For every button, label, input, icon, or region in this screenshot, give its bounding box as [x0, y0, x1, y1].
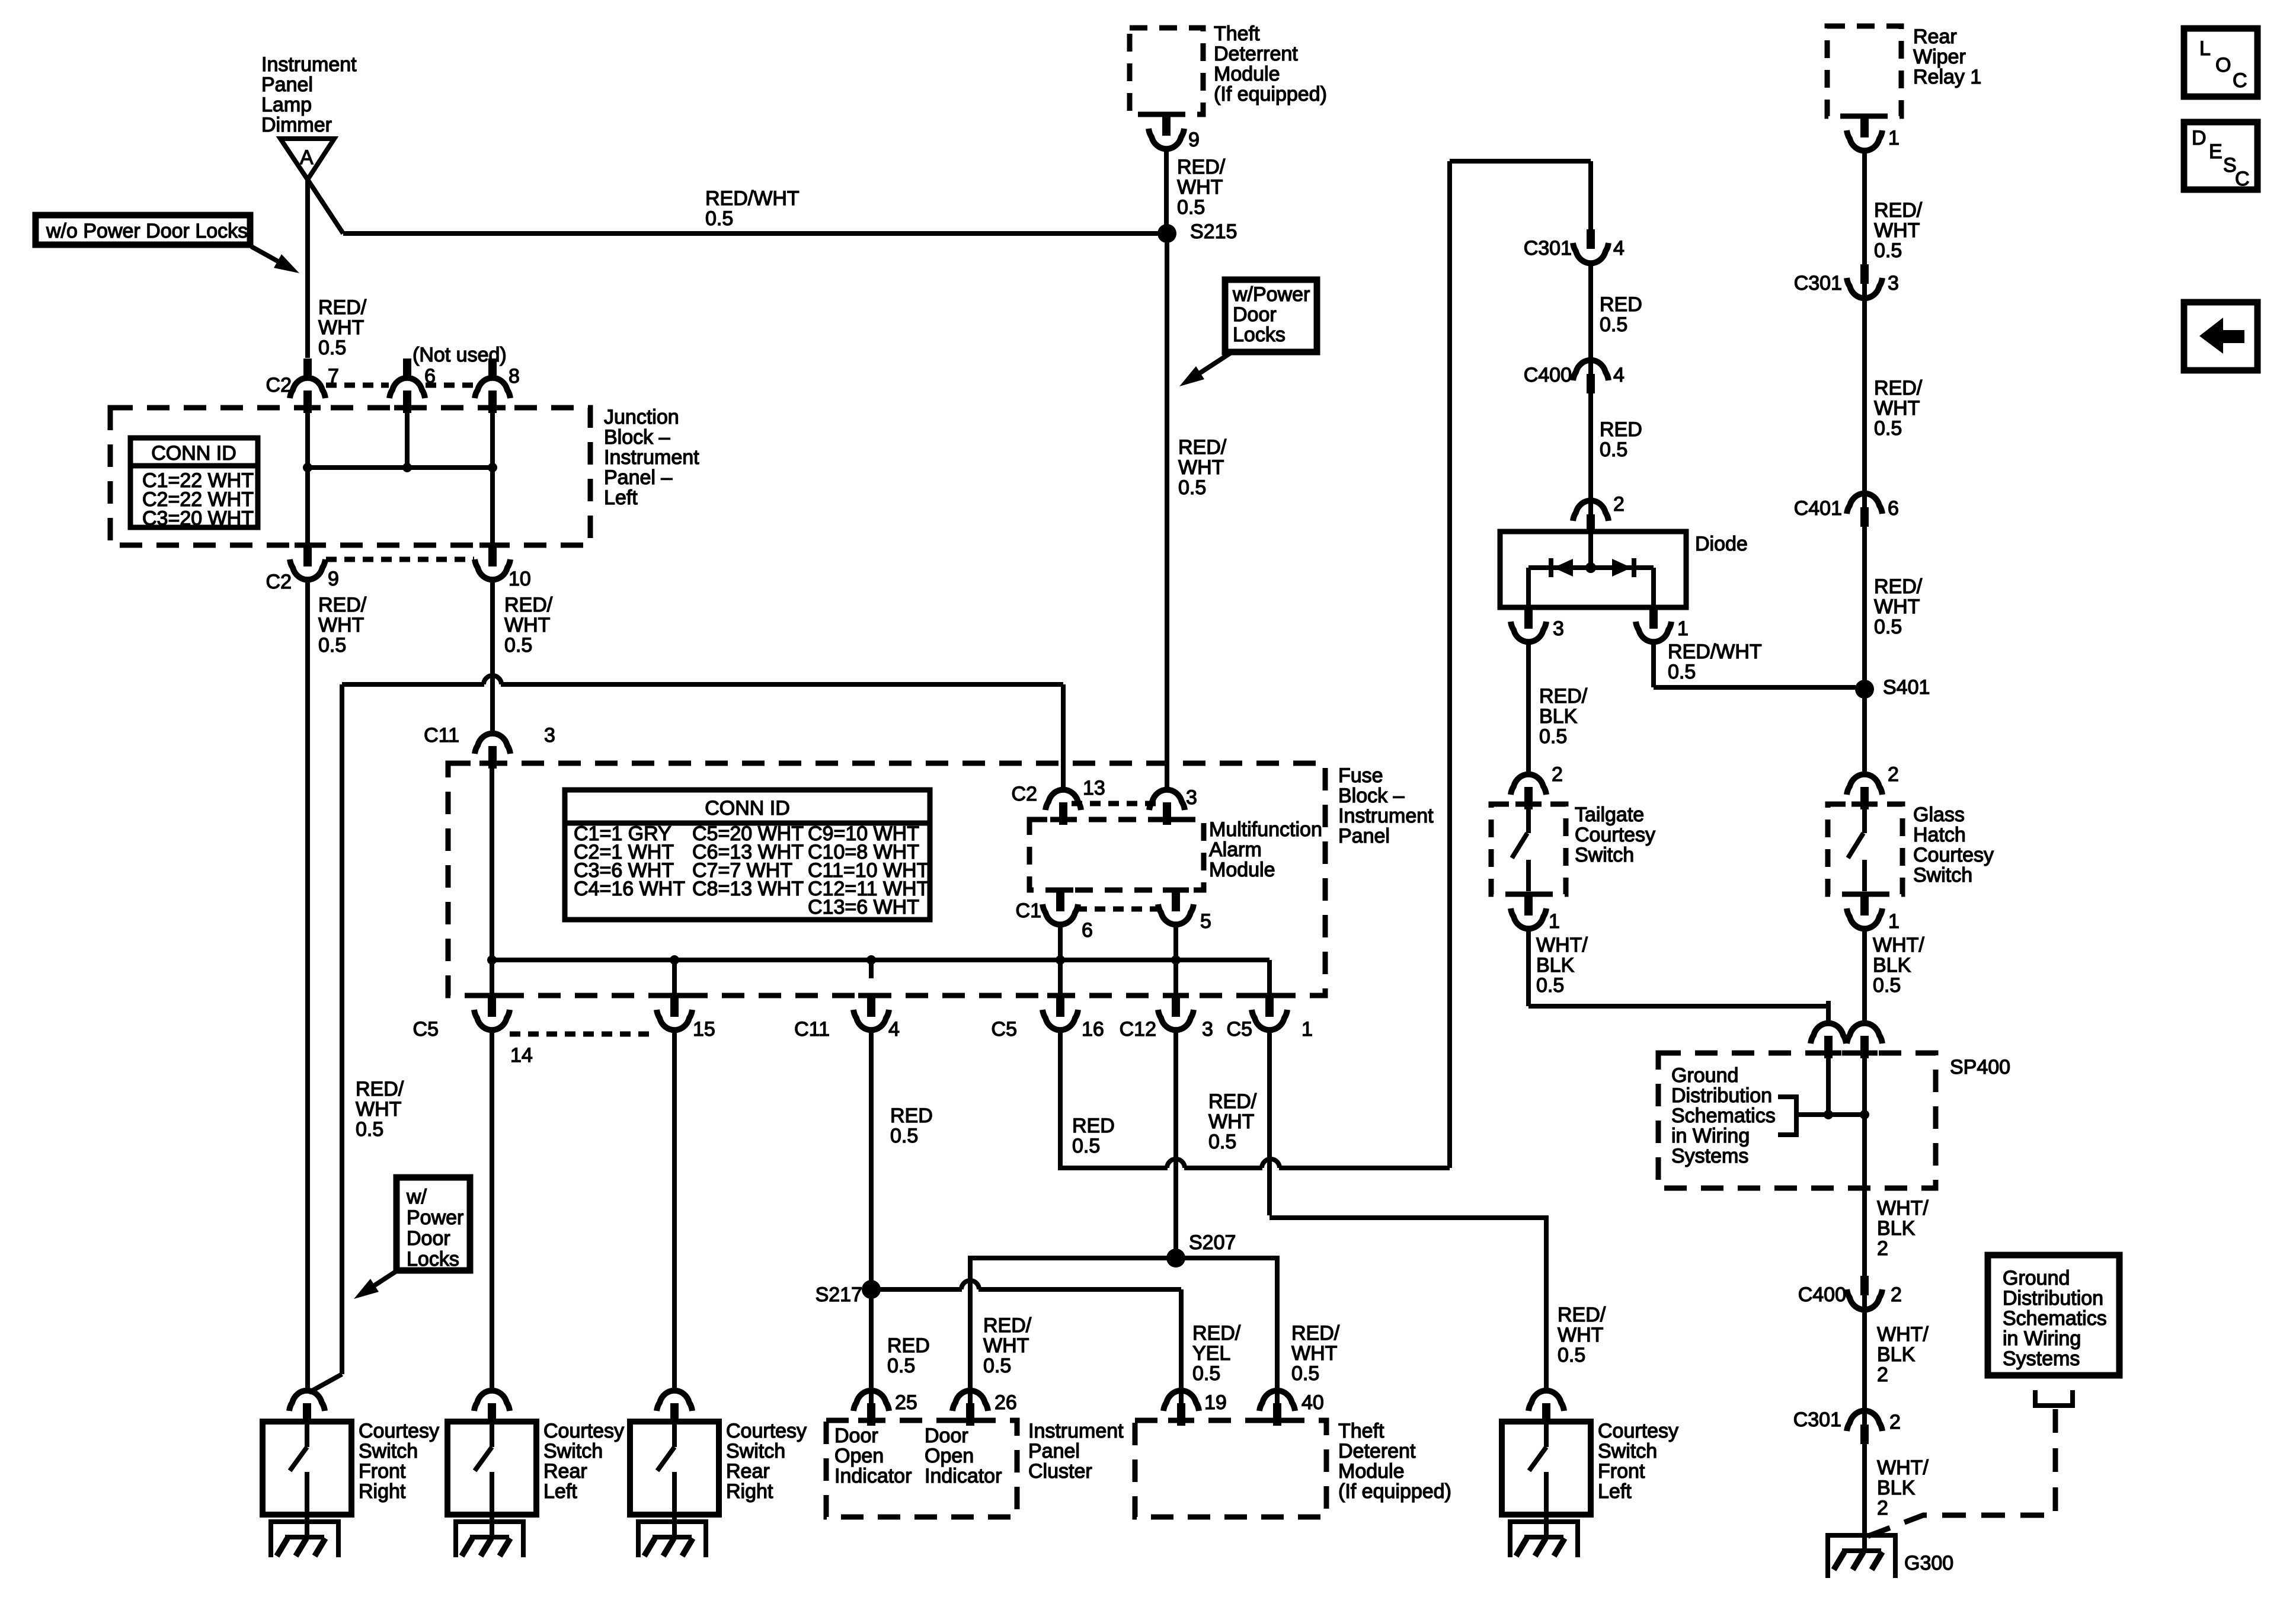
wire - branch line to front right switch (w/power door locks)	[340, 684, 344, 1374]
svg-text:Hatch: Hatch	[1913, 824, 1966, 846]
svg-text:SP400: SP400	[1950, 1056, 2010, 1078]
SP400 splice box (dashed)	[1658, 1053, 1936, 1188]
svg-text:Right: Right	[359, 1480, 406, 1503]
ground - Switch Front Left	[1544, 1515, 1549, 1538]
svg-text:0.5: 0.5	[1177, 196, 1205, 219]
w/Power Door Locks arrow (top)	[1197, 351, 1234, 375]
connector pin 8	[488, 359, 497, 377]
DESC legend box	[2184, 122, 2257, 190]
svg-text:Panel: Panel	[1028, 1440, 1080, 1462]
svg-text:C4=16 WHT: C4=16 WHT	[574, 878, 685, 900]
svg-text:15: 15	[693, 1018, 715, 1041]
svg-text:2: 2	[1889, 1411, 1901, 1433]
connector pin 19	[1179, 1368, 1184, 1392]
svg-text:Instrument: Instrument	[261, 53, 357, 76]
svg-text:S401: S401	[1883, 676, 1930, 699]
connector pin 15	[661, 993, 687, 998]
connector C2 pin 13	[1061, 767, 1066, 791]
tie line C2pin13 - pin3	[1072, 801, 1158, 806]
svg-text:Block –: Block –	[604, 426, 670, 449]
svg-text:Cluster: Cluster	[1028, 1460, 1092, 1483]
svg-text:Open: Open	[925, 1445, 974, 1467]
svg-text:Right: Right	[726, 1480, 773, 1503]
svg-text:YEL: YEL	[1192, 1342, 1230, 1365]
svg-text:RED/: RED/	[983, 1314, 1032, 1337]
svg-text:Theft: Theft	[1214, 23, 1260, 45]
svg-text:C12: C12	[1120, 1018, 1156, 1041]
tie line C5pin14 - pin15	[510, 1032, 657, 1037]
svg-text:Module: Module	[1209, 859, 1275, 881]
wire - dimmer diagonal to S215 feed	[308, 180, 343, 233]
svg-text:WHT: WHT	[1208, 1110, 1254, 1133]
connector C301 pin 2	[1847, 1411, 1882, 1431]
svg-text:0.5: 0.5	[705, 207, 733, 230]
wire - pin 15 riser	[672, 960, 677, 996]
svg-text:Switch: Switch	[1913, 864, 1972, 886]
connector pin 25	[869, 1368, 874, 1392]
svg-text:Courtesy: Courtesy	[726, 1420, 807, 1442]
svg-text:in Wiring: in Wiring	[2003, 1327, 2081, 1350]
svg-text:Deterrent: Deterrent	[1214, 43, 1298, 65]
svg-text:2: 2	[1877, 1363, 1888, 1386]
svg-text:Power: Power	[407, 1206, 463, 1229]
svg-text:C: C	[2233, 69, 2247, 92]
svg-text:Locks: Locks	[1233, 324, 1285, 346]
svg-text:RED/: RED/	[356, 1078, 404, 1100]
svg-text:25: 25	[895, 1391, 917, 1414]
svg-text:19: 19	[1204, 1391, 1227, 1414]
courtesy switch box - Switch Front Left	[1502, 1422, 1591, 1515]
connector pin 3 (multifunction top)	[1165, 767, 1169, 791]
svg-text:(If equipped): (If equipped)	[1214, 83, 1327, 105]
svg-text:3: 3	[1888, 272, 1899, 295]
svg-text:2: 2	[1877, 1237, 1888, 1260]
svg-text:WHT: WHT	[1291, 1342, 1337, 1365]
svg-text:Multifunction: Multifunction	[1209, 818, 1322, 841]
svg-text:WHT: WHT	[504, 614, 550, 636]
svg-text:C401: C401	[1794, 497, 1842, 520]
connector C12 pin 3	[1163, 993, 1189, 998]
instrument panel lamp dimmer triangle A	[280, 139, 334, 180]
junction block - instrument panel - left (dashed box)	[110, 408, 590, 545]
fuse block - instrument panel (dashed box)	[448, 763, 1325, 996]
svg-text:C400: C400	[1798, 1283, 1846, 1306]
connector pin 6 (not used)	[403, 359, 411, 377]
S217 splice	[862, 1280, 881, 1299]
svg-text:WHT: WHT	[318, 614, 364, 636]
LOC legend box	[2184, 28, 2257, 97]
connector pin 2 (glass hatch)	[1862, 752, 1867, 776]
svg-text:Rear: Rear	[1913, 25, 1957, 48]
S207 splice	[1166, 1249, 1185, 1267]
connector pin 1 (diode right)	[1649, 606, 1658, 629]
wire - C5 pin16 to bus1	[1060, 1030, 1168, 1168]
svg-text:C3=20 WHT: C3=20 WHT	[142, 507, 254, 530]
wire - top link down to C301 pin4	[1588, 161, 1593, 231]
svg-text:1: 1	[1888, 910, 1900, 933]
connector C5 pin 14	[479, 993, 505, 998]
connector pin 9 (theft deterrent module)	[1153, 112, 1179, 117]
svg-text:Locks: Locks	[407, 1248, 459, 1270]
svg-text:Tailgate: Tailgate	[1575, 804, 1644, 826]
svg-text:Relay 1: Relay 1	[1913, 66, 1981, 88]
wire - S215 down to multifunction pin 3	[1165, 233, 1169, 770]
fuse block internal bus y1620	[492, 958, 1269, 962]
svg-text:Module: Module	[1338, 1460, 1405, 1483]
svg-text:Courtesy: Courtesy	[1575, 824, 1655, 846]
connector pin 10	[479, 543, 506, 548]
connector C11 pin 4	[858, 993, 884, 998]
svg-text:BLK: BLK	[1877, 1343, 1916, 1366]
wire - x2684 down to diode	[1588, 261, 1593, 532]
connector C301 pin 3	[1860, 264, 1869, 284]
wire - y1155 link down to C2 pin13	[1061, 684, 1066, 770]
svg-text:S215: S215	[1190, 220, 1237, 243]
svg-text:4: 4	[888, 1018, 900, 1041]
svg-text:0.5: 0.5	[1874, 616, 1902, 638]
courtesy switch box - Switch Front Right	[263, 1422, 351, 1515]
courtesy switch Rear Right connector	[657, 1391, 692, 1411]
svg-text:w/Power: w/Power	[1232, 283, 1310, 306]
svg-text:Systems: Systems	[1671, 1145, 1748, 1167]
rear wiper relay 1 (dashed box)	[1827, 26, 1901, 116]
wire - pin10 to C11 pin3	[490, 580, 495, 714]
svg-text:2: 2	[1888, 763, 1899, 786]
svg-text:0.5: 0.5	[1668, 661, 1696, 683]
svg-text:Instrument: Instrument	[1028, 1420, 1124, 1442]
svg-text:14: 14	[510, 1044, 533, 1067]
svg-text:Rear: Rear	[726, 1460, 770, 1483]
svg-text:Courtesy: Courtesy	[543, 1420, 624, 1442]
svg-text:Door: Door	[834, 1425, 878, 1447]
svg-text:Panel: Panel	[1338, 825, 1390, 847]
svg-text:BLK: BLK	[1536, 954, 1575, 977]
svg-text:in Wiring: in Wiring	[1671, 1125, 1750, 1147]
svg-text:Switch: Switch	[726, 1440, 785, 1462]
svg-text:0.5: 0.5	[1874, 239, 1902, 262]
svg-text:RED/: RED/	[318, 296, 367, 319]
svg-text:1: 1	[1677, 617, 1689, 640]
svg-text:w/o Power Door Locks: w/o Power Door Locks	[46, 220, 248, 242]
svg-text:2: 2	[1552, 763, 1563, 786]
multifunction alarm module (dashed box)	[1029, 820, 1204, 890]
wire - pin 9 down to courtesy switch front right	[305, 580, 310, 1393]
connector C11 pin 3 (fuse block top)	[490, 711, 495, 735]
svg-text:0.5: 0.5	[983, 1355, 1011, 1377]
svg-text:1: 1	[1302, 1018, 1313, 1041]
ground - Switch Front Right	[305, 1515, 309, 1538]
svg-text:WHT: WHT	[1874, 219, 1920, 242]
svg-text:C301: C301	[1793, 1409, 1841, 1431]
back arrow box	[2184, 302, 2257, 370]
svg-text:3: 3	[544, 724, 555, 747]
theft deterrent module top (dashed box)	[1130, 28, 1203, 114]
svg-text:BLK: BLK	[1877, 1217, 1916, 1240]
wire - SP400 down to G300	[1862, 1188, 1867, 1552]
svg-text:WHT: WHT	[1874, 397, 1920, 420]
svg-text:0.5: 0.5	[1539, 725, 1567, 748]
svg-text:4: 4	[1613, 237, 1625, 260]
connector C301 pin 4	[1587, 229, 1595, 249]
svg-text:C1: C1	[1016, 900, 1041, 922]
w/Power Door Locks callout box (top)	[1225, 280, 1317, 352]
svg-text:3: 3	[1553, 617, 1564, 640]
svg-text:0.5: 0.5	[1558, 1344, 1585, 1366]
svg-text:Module: Module	[1214, 63, 1280, 85]
svg-text:2: 2	[1891, 1283, 1902, 1306]
svg-text:Switch: Switch	[1598, 1440, 1657, 1462]
w/ Power Door Locks arrow (lower)	[372, 1271, 396, 1287]
svg-text:13: 13	[1083, 777, 1105, 799]
svg-text:0.5: 0.5	[356, 1118, 383, 1141]
w/ Power Door Locks callout box (lower)	[396, 1177, 470, 1270]
connector pin 1 (rear wiper relay)	[1851, 114, 1878, 119]
svg-text:3: 3	[1202, 1018, 1213, 1041]
svg-text:WHT/: WHT/	[1877, 1457, 1929, 1479]
svg-text:BLK: BLK	[1873, 954, 1911, 977]
svg-text:C301: C301	[1524, 237, 1572, 260]
connector C2 pin 7	[303, 359, 312, 377]
wire - relay pin1 down	[1862, 151, 1867, 769]
wire - diode pin3 down to tailgate switch	[1526, 642, 1531, 770]
svg-text:WHT: WHT	[318, 316, 364, 339]
svg-text:Front: Front	[1598, 1460, 1645, 1483]
svg-text:Door: Door	[1233, 303, 1277, 326]
courtesy switch Front Left connector	[1528, 1391, 1564, 1411]
svg-text:0.5: 0.5	[504, 634, 532, 657]
svg-text:S207: S207	[1189, 1231, 1236, 1254]
connector into SP400 (left)	[1826, 1001, 1831, 1025]
wire - C1 pin6 down to bus	[1058, 924, 1063, 996]
svg-text:S217: S217	[816, 1283, 862, 1306]
svg-text:WHT: WHT	[1558, 1324, 1603, 1346]
svg-text:5: 5	[1200, 910, 1211, 933]
svg-text:1: 1	[1549, 910, 1560, 933]
svg-text:Schematics: Schematics	[1671, 1105, 1776, 1127]
connector C5 pin 1	[1256, 993, 1283, 998]
svg-text:w/: w/	[406, 1186, 427, 1208]
svg-text:C5: C5	[992, 1018, 1017, 1041]
S401 splice	[1855, 680, 1874, 699]
svg-text:Theft: Theft	[1338, 1420, 1384, 1442]
svg-text:Rear: Rear	[543, 1460, 587, 1483]
CONN ID table (fuse block)	[565, 790, 930, 920]
svg-text:4: 4	[1613, 364, 1625, 386]
svg-text:9: 9	[1188, 129, 1200, 151]
w/o Power Door Locks arrow	[251, 247, 281, 263]
wire - C11 pin4 to S217 and pin 25	[869, 1030, 874, 1407]
svg-text:O: O	[2215, 54, 2231, 76]
connector pin 2 (diode)	[1573, 501, 1609, 521]
svg-text:8: 8	[509, 365, 520, 388]
connector C5 pin 16	[1047, 993, 1073, 998]
svg-text:RED/WHT: RED/WHT	[705, 187, 800, 210]
svg-text:0.5: 0.5	[318, 337, 346, 359]
diode internals	[1588, 532, 1593, 568]
wire - pin15 to rear right switch	[672, 1030, 677, 1393]
svg-text:RED/: RED/	[1208, 1090, 1257, 1113]
svg-text:Ground: Ground	[1671, 1064, 1738, 1087]
wire - C5 pin14 to rear left switch	[490, 1030, 494, 1393]
svg-text:D: D	[2192, 127, 2207, 149]
svg-text:RED/: RED/	[1177, 156, 1226, 178]
svg-text:Instrument: Instrument	[1338, 805, 1434, 827]
svg-text:0.5: 0.5	[1873, 974, 1901, 997]
connector pin 5 (multifunction bottom)	[1163, 888, 1189, 893]
svg-text:0.5: 0.5	[1208, 1131, 1236, 1153]
svg-text:RED/: RED/	[1192, 1322, 1241, 1345]
svg-text:CONN ID: CONN ID	[705, 797, 790, 820]
wire - top link to diode column	[1450, 159, 1591, 164]
wire - horizontal link y1155	[342, 682, 484, 687]
wire - tailgate pin1 to SP400	[1526, 929, 1531, 1006]
connector pin 1 (tailgate)	[1515, 892, 1542, 897]
svg-text:Junction: Junction	[604, 406, 679, 428]
svg-text:1: 1	[1888, 127, 1900, 149]
svg-text:BLK: BLK	[1877, 1477, 1916, 1499]
dashed reference line to G300	[1867, 1409, 2055, 1537]
svg-text:WHT/: WHT/	[1877, 1323, 1929, 1346]
wire - pin5 down to bus and to C12 pin3	[1173, 924, 1178, 996]
svg-text:G300: G300	[1904, 1552, 1953, 1574]
svg-text:Block –: Block –	[1338, 785, 1405, 807]
svg-text:Switch: Switch	[543, 1440, 603, 1462]
connector into SP400 (right)	[1862, 1001, 1867, 1025]
svg-text:Systems: Systems	[2003, 1347, 2080, 1370]
svg-text:Front: Front	[359, 1460, 406, 1483]
svg-text:26: 26	[994, 1391, 1017, 1414]
svg-text:Courtesy: Courtesy	[1598, 1420, 1678, 1442]
svg-text:L: L	[2199, 37, 2211, 60]
connector pin 26	[968, 1368, 973, 1392]
CONN ID table (junction block)	[130, 438, 258, 527]
svg-text:WHT: WHT	[1874, 596, 1920, 618]
svg-text:Open: Open	[834, 1445, 884, 1467]
svg-text:0.5: 0.5	[318, 634, 346, 657]
svg-text:RED/: RED/	[1874, 199, 1923, 222]
svg-text:0.5: 0.5	[1291, 1362, 1319, 1385]
svg-text:C13=6 WHT: C13=6 WHT	[808, 896, 919, 918]
svg-text:RED/: RED/	[1291, 1322, 1340, 1345]
courtesy switch Rear Left connector	[474, 1391, 510, 1411]
svg-text:WHT: WHT	[1178, 456, 1224, 479]
connector C400 pin 2	[1860, 1276, 1869, 1295]
svg-text:C2: C2	[266, 571, 292, 593]
svg-text:WHT/: WHT/	[1877, 1197, 1929, 1219]
svg-text:Distribution: Distribution	[2003, 1287, 2103, 1310]
connector pin 40	[1275, 1368, 1280, 1392]
svg-text:Indicator: Indicator	[834, 1465, 912, 1487]
svg-text:0.5: 0.5	[887, 1355, 915, 1377]
tie line C2 pins 7-6-8	[326, 383, 389, 388]
svg-text:0.5: 0.5	[1600, 438, 1627, 461]
svg-text:C: C	[2235, 168, 2250, 190]
svg-text:16: 16	[1082, 1018, 1104, 1041]
svg-text:WHT/: WHT/	[1536, 934, 1588, 956]
wire - glass pin1 down to SP400	[1862, 929, 1867, 1004]
connector C401 pin 6	[1847, 494, 1882, 514]
courtesy switch box - Switch Rear Left	[447, 1422, 536, 1515]
svg-text:C8=13 WHT: C8=13 WHT	[692, 878, 804, 900]
svg-text:Instrument: Instrument	[604, 446, 699, 469]
SP400 internal wires	[1826, 1058, 1831, 1115]
S215 splice	[1157, 224, 1176, 243]
bracket under box	[2035, 1390, 2073, 1406]
svg-text:C5: C5	[1227, 1018, 1252, 1041]
svg-text:RED: RED	[887, 1334, 930, 1357]
tie line C1pin6 - pin5	[1076, 907, 1160, 912]
svg-text:RED: RED	[1072, 1115, 1115, 1137]
svg-text:9: 9	[328, 568, 339, 590]
svg-text:C11: C11	[794, 1018, 830, 1041]
svg-text:RED/: RED/	[1178, 436, 1227, 459]
wire - C5/14 riser	[490, 769, 494, 996]
svg-text:2: 2	[1877, 1497, 1888, 1519]
svg-text:Door: Door	[407, 1227, 450, 1250]
svg-text:0.5: 0.5	[1192, 1362, 1220, 1385]
svg-text:RED/WHT: RED/WHT	[1668, 641, 1762, 663]
theft deterrent module bottom (dashed box)	[1135, 1420, 1326, 1517]
svg-text:Diode: Diode	[1695, 533, 1748, 555]
svg-text:Fuse: Fuse	[1338, 764, 1383, 787]
wire - tall riser x2446 up	[1447, 161, 1452, 1168]
connector C1 pin 6 (multifunction bottom)	[1047, 888, 1073, 893]
wire - theft module pin9 to S215	[1164, 149, 1169, 233]
svg-text:10: 10	[509, 568, 531, 590]
svg-text:2: 2	[1613, 493, 1625, 516]
courtesy switch Front Right connector	[289, 1391, 325, 1411]
svg-text:WHT: WHT	[356, 1098, 401, 1121]
svg-text:Alarm: Alarm	[1209, 838, 1262, 861]
connector C2 pin 9	[295, 543, 321, 548]
wire - S217 branch to pin 19	[871, 1287, 962, 1292]
svg-text:Switch: Switch	[1575, 844, 1634, 866]
wire - C12 pin3 down to S207	[1173, 1030, 1178, 1258]
svg-text:RED/: RED/	[318, 594, 367, 616]
svg-text:Schematics: Schematics	[2003, 1307, 2107, 1330]
svg-text:WHT: WHT	[1177, 176, 1223, 199]
svg-text:C301: C301	[1794, 272, 1842, 295]
glass hatch courtesy switch (dashed box)	[1828, 804, 1902, 894]
junction block internal wires	[305, 413, 310, 546]
ground - Switch Rear Left	[490, 1515, 494, 1538]
door open indicator box (instrument panel cluster)	[826, 1420, 1017, 1517]
diode box	[1500, 532, 1686, 607]
connector pin 3 (diode left)	[1524, 606, 1533, 629]
wire - C5 pin1 to front left switch	[1267, 1030, 1272, 1215]
svg-text:E: E	[2209, 140, 2223, 163]
svg-text:0.5: 0.5	[1178, 476, 1206, 499]
svg-text:WHT/: WHT/	[1873, 934, 1924, 956]
wire - dimmer to C2 pin 7	[305, 180, 310, 358]
svg-text:0.5: 0.5	[1536, 974, 1564, 997]
wire - S207 branch to pin 26	[970, 1258, 1176, 1407]
svg-text:C2: C2	[1012, 783, 1037, 805]
svg-text:RED/: RED/	[504, 594, 553, 616]
svg-text:Left: Left	[1598, 1480, 1632, 1503]
svg-text:C400: C400	[1524, 364, 1572, 386]
svg-text:Left: Left	[543, 1480, 577, 1503]
wire - diode pin1 to S401	[1651, 642, 1656, 687]
ground G300	[1828, 1535, 1895, 1578]
svg-text:RED: RED	[1600, 418, 1642, 441]
svg-text:RED/: RED/	[1874, 377, 1923, 399]
courtesy switch box - Switch Rear Right	[630, 1422, 719, 1515]
svg-text:CONN ID: CONN ID	[151, 442, 236, 465]
svg-text:RED/: RED/	[1558, 1304, 1606, 1326]
svg-text:RED: RED	[890, 1105, 933, 1127]
svg-text:BLK: BLK	[1539, 705, 1578, 728]
